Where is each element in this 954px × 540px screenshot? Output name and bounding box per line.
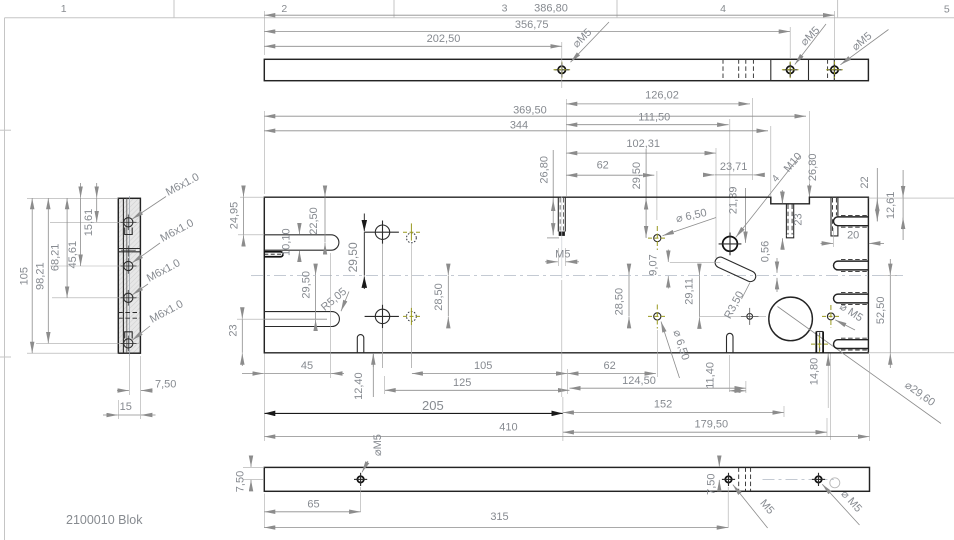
- zone tick 3|4: [616, 0, 618, 18]
- top view solid line e: [770, 59, 772, 80]
- svg-text:M6x1.0: M6x1.0: [164, 171, 201, 199]
- bottom notch slot 1: [357, 335, 364, 353]
- svg-text:369,50: 369,50: [513, 105, 547, 117]
- dim 24,95 rotated: [229, 186, 265, 246]
- svg-text:126,02: 126,02: [645, 89, 679, 101]
- svg-text:11,40: 11,40: [705, 362, 717, 389]
- dim 9,07 rotated: [648, 250, 669, 289]
- main view outline with step: [264, 197, 868, 353]
- hole M5 top view 1: [554, 62, 571, 79]
- dim 20: [821, 228, 885, 247]
- svg-text:⌀ M5: ⌀ M5: [838, 488, 864, 515]
- label diam 6,50 lower leader: [661, 322, 691, 379]
- dim 152: [563, 399, 784, 417]
- slot upper-left capsule: [264, 235, 339, 250]
- vertical slot A at step: [786, 204, 793, 238]
- svg-text:0,56: 0,56: [760, 241, 772, 262]
- yellow hole M5 right (831,316): [822, 305, 840, 328]
- dim 45,61 side rotated: [67, 183, 80, 268]
- svg-text:26,80: 26,80: [539, 156, 551, 184]
- svg-text:105: 105: [474, 360, 492, 372]
- dim 126,02: [566, 89, 752, 196]
- side hole 4 tap bracket: [125, 332, 133, 339]
- dim 22 rotated: [859, 168, 877, 222]
- M5 slot centerline vertical: [561, 196, 563, 278]
- svg-text:1: 1: [61, 3, 67, 15]
- svg-text:62: 62: [597, 160, 609, 172]
- bottom notch slot 2: [727, 333, 734, 352]
- label diam M5 bottom right leader: [822, 484, 864, 525]
- bottom edge extension to right margin: [868, 352, 954, 354]
- zone tick 4|5: [837, 0, 839, 18]
- dim 386,80: [264, 3, 834, 60]
- side hole 1: [121, 215, 137, 231]
- top view dashed line c: [745, 59, 747, 80]
- svg-text:7,50: 7,50: [235, 471, 247, 492]
- dim 29,50 left rotated: [301, 264, 316, 331]
- svg-text:R5,05: R5,05: [319, 286, 349, 314]
- svg-text:68,21: 68,21: [49, 244, 61, 272]
- dim 65: [264, 487, 360, 528]
- svg-text:23,71: 23,71: [720, 161, 748, 173]
- dim 344: [264, 120, 771, 196]
- dim 369,50: [264, 105, 809, 197]
- top view outline: [264, 59, 868, 80]
- svg-text:⌀ 6,50: ⌀ 6,50: [670, 328, 691, 361]
- svg-text:28,50: 28,50: [433, 283, 445, 311]
- top view dashed line g: [827, 59, 829, 80]
- dim 29,50 center rotated dark: [346, 214, 364, 290]
- side hole 4: [121, 336, 137, 352]
- side hole 3: [121, 290, 137, 306]
- dim 315: [264, 487, 728, 528]
- dim 23 left rotated: [228, 309, 265, 367]
- side view inner line 2: [126, 198, 128, 353]
- svg-text:386,80: 386,80: [534, 3, 568, 15]
- svg-text:⌀ 6,50: ⌀ 6,50: [675, 207, 708, 225]
- big circle 29,60: [769, 297, 813, 341]
- dim 12,40 rotated: [353, 353, 373, 400]
- small dotted hole C (411,236): [403, 223, 420, 368]
- top view dashed line b: [738, 59, 740, 80]
- svg-text:7,50: 7,50: [155, 379, 176, 391]
- svg-text:22,50: 22,50: [308, 207, 320, 235]
- label M6x1.0 hole2: [132, 217, 196, 263]
- label diam M5 right: [835, 301, 865, 330]
- vertical slot B top right: [831, 197, 838, 236]
- dim 105 side rotated: [18, 198, 32, 353]
- small dotted hole D (411,316): [403, 308, 420, 368]
- dim 28,50 right rotated: [614, 264, 630, 328]
- svg-text:3: 3: [502, 3, 508, 15]
- dim 21,39 rotated: [728, 187, 746, 243]
- dim 14,80 rotated: [809, 354, 831, 441]
- dim 7,50 bottom left rotated: [235, 456, 265, 492]
- dim 52,50 rotated: [875, 259, 897, 368]
- svg-text:⌀M5: ⌀M5: [570, 26, 594, 50]
- svg-text:45,61: 45,61: [67, 241, 79, 269]
- dim 68,21 side rotated: [49, 198, 67, 297]
- label diam M5 bottom vertical: [362, 434, 384, 472]
- svg-text:21,39: 21,39: [728, 187, 740, 215]
- svg-text:⌀M5: ⌀M5: [372, 434, 384, 456]
- svg-text:M10: M10: [782, 151, 805, 175]
- svg-text:20: 20: [847, 230, 859, 242]
- svg-text:152: 152: [654, 399, 672, 411]
- dim 202,50: [264, 33, 562, 88]
- dim 10,10 rotated: [281, 224, 300, 262]
- bottom faint circle: [830, 478, 840, 488]
- extension line 562 column: [561, 280, 563, 397]
- zone tick 1|2: [173, 0, 175, 18]
- M5 tapped hole top edge (slot 558-565): [558, 197, 565, 236]
- svg-text:344: 344: [510, 120, 528, 132]
- frame top border: [5, 17, 954, 19]
- slot upper-left inner dash: [264, 253, 282, 255]
- svg-text:202,50: 202,50: [427, 33, 461, 45]
- bottom hole 1: [354, 473, 367, 486]
- dim 111,50: [566, 111, 730, 235]
- svg-text:M6x1.0: M6x1.0: [145, 257, 182, 285]
- top view solid line h: [833, 59, 835, 80]
- dim 0,56 rotated: [760, 241, 778, 292]
- hole M5 top view 2: [782, 62, 799, 79]
- svg-text:315: 315: [490, 511, 508, 523]
- dim 22,50 rotated: [308, 186, 325, 254]
- dim 356,75: [264, 19, 790, 59]
- yellow hole F (657,316): [648, 305, 667, 378]
- side view body hatched: [118, 198, 140, 353]
- svg-text:15,61: 15,61: [83, 209, 95, 237]
- label M5 with arrows: [545, 248, 579, 266]
- slot lower-left mid line: [264, 318, 327, 320]
- svg-text:M6x1.0: M6x1.0: [148, 298, 185, 326]
- right edge slot row1 capsule: [834, 215, 869, 227]
- dim 62 lower: [568, 360, 656, 394]
- svg-text:12,61: 12,61: [885, 192, 897, 220]
- M10 hole (730,244): [719, 233, 742, 256]
- bottom slot M5 dark (816-823): [811, 332, 829, 353]
- top edge extension to right margin: [868, 197, 954, 199]
- label M6x1.0 hole1: [132, 171, 201, 219]
- frame left border: [4, 18, 6, 540]
- dim 26,80 right rotated: [807, 154, 819, 197]
- dim R5,05 leader: [319, 286, 349, 314]
- svg-text:52,50: 52,50: [875, 297, 887, 325]
- dim 45: [242, 253, 344, 378]
- side hole 1 tap bracket: [125, 228, 133, 235]
- hole M5 top view 3: [826, 62, 843, 79]
- svg-text:9,07: 9,07: [648, 254, 660, 275]
- svg-text:23: 23: [228, 324, 240, 336]
- label diam M5 top view 3: [840, 30, 888, 65]
- dim 23 slot A rotated: [783, 193, 805, 249]
- leader diam 29,60: [778, 307, 942, 424]
- small crosshair hole (750,316): [741, 308, 759, 325]
- side hole 2: [121, 258, 137, 274]
- dim 28,50 mid rotated: [433, 264, 448, 328]
- capsule end row line: [670, 261, 721, 263]
- svg-text:7,50: 7,50: [706, 473, 718, 494]
- svg-text:M6x1.0: M6x1.0: [158, 217, 195, 245]
- svg-text:14,80: 14,80: [809, 358, 821, 386]
- label M10 with leader: [736, 151, 805, 238]
- bottom view outline: [264, 467, 869, 491]
- svg-text:15: 15: [120, 401, 132, 413]
- dim 26,80 left rotated: [539, 150, 560, 238]
- svg-text:12,40: 12,40: [353, 372, 365, 400]
- dim 15 side: [103, 400, 156, 419]
- svg-text:22: 22: [859, 176, 871, 188]
- label diam M5 top view 2: [795, 24, 826, 65]
- label diam 6,50 upper leader: [663, 207, 717, 236]
- dim 23,71: [704, 161, 765, 175]
- right edge slot row3 capsule: [834, 293, 869, 305]
- dim 98,21 side rotated: [34, 198, 48, 343]
- right edge slot row2 capsule: [834, 260, 869, 272]
- svg-text:98,21: 98,21: [34, 262, 46, 290]
- svg-text:205: 205: [422, 398, 444, 413]
- svg-text:29,50: 29,50: [631, 162, 643, 190]
- dim 29,11 rotated: [684, 265, 700, 329]
- svg-text:29,50: 29,50: [301, 271, 313, 299]
- side slot mark lines: [118, 246, 140, 257]
- side hole row extension lines: [50, 221, 140, 223]
- dim 102,31: [566, 138, 716, 258]
- svg-text:28,50: 28,50: [614, 288, 626, 316]
- top view dashed line d: [752, 59, 754, 80]
- slot upper-left inner thread hole: [264, 252, 283, 257]
- svg-text:⌀M5: ⌀M5: [798, 24, 822, 48]
- top view dashed line a: [722, 59, 724, 80]
- svg-text:29,50: 29,50: [346, 242, 360, 272]
- hole with crosshair A (382,232): [365, 221, 399, 369]
- svg-text:29,11: 29,11: [684, 278, 696, 305]
- dim 7,50 bottom right rotated: [706, 456, 720, 495]
- svg-text:410: 410: [499, 422, 517, 434]
- bottom view dashed line b: [745, 467, 747, 491]
- bottom view dashed line c: [750, 467, 752, 491]
- side dashed lines lower: [118, 313, 140, 319]
- dim 12,61 rotated: [885, 170, 903, 240]
- svg-text:M5: M5: [555, 249, 570, 261]
- svg-text:4: 4: [720, 3, 726, 15]
- svg-text:10,10: 10,10: [281, 228, 293, 256]
- dim 410: [264, 354, 869, 442]
- dim 62 upper: [566, 160, 657, 220]
- bottom hole 2: [722, 473, 735, 486]
- top view solid line f: [808, 59, 810, 80]
- side view inner line 1: [122, 198, 124, 353]
- dim 4 step: [770, 173, 782, 203]
- svg-text:M5: M5: [757, 497, 776, 516]
- bottom view dashed line a: [738, 467, 740, 491]
- label M5 bottom leader: [733, 485, 777, 528]
- main centerline: [251, 275, 903, 277]
- dim 179,50: [563, 397, 827, 441]
- bottom view centerline: [763, 478, 834, 480]
- svg-text:65: 65: [307, 498, 319, 510]
- svg-text:4: 4: [770, 173, 782, 185]
- left margin tick A: [0, 129, 11, 131]
- svg-text:105: 105: [18, 267, 30, 285]
- svg-text:125: 125: [453, 377, 471, 389]
- svg-text:179,50: 179,50: [694, 419, 728, 431]
- dim 11,40 rotated: [705, 355, 746, 392]
- svg-text:102,31: 102,31: [626, 138, 660, 150]
- yellow hole E (657,238): [648, 226, 667, 250]
- slanted capsule slot: [715, 257, 756, 282]
- svg-text:⌀29,60: ⌀29,60: [902, 379, 937, 409]
- slot lower-left capsule: [264, 312, 339, 327]
- svg-text:2100010 Blok: 2100010 Blok: [66, 513, 143, 527]
- label M6x1.0 hole3: [132, 257, 182, 295]
- svg-text:124,50: 124,50: [622, 375, 656, 387]
- svg-text:62: 62: [603, 360, 615, 372]
- svg-text:2: 2: [281, 3, 287, 15]
- svg-text:356,75: 356,75: [515, 19, 549, 31]
- svg-text:45: 45: [301, 360, 313, 372]
- dim R3,50 rotated leader: [722, 283, 750, 321]
- label M6x1.0 hole4: [132, 298, 185, 340]
- svg-text:111,50: 111,50: [638, 111, 670, 123]
- dim 15,61 side rotated: [83, 183, 97, 236]
- dim 29,50 upper rotated: [631, 149, 646, 238]
- svg-text:23: 23: [793, 213, 805, 225]
- svg-text:26,80: 26,80: [807, 154, 819, 182]
- zone tick 2|3: [393, 0, 395, 18]
- svg-text:24,95: 24,95: [229, 202, 241, 230]
- small hole row line: [700, 315, 766, 317]
- label diam M5 top view 1: [570, 22, 609, 62]
- bottom hole 3: [812, 473, 825, 486]
- dim 124,50: [570, 375, 746, 393]
- svg-text:5: 5: [944, 4, 950, 16]
- side view centerline: [128, 196, 130, 356]
- dim 205 black: [264, 398, 563, 413]
- left margin tick B: [0, 356, 11, 358]
- right edge slot row4 capsule: [834, 338, 869, 350]
- hole with crosshair B (382,316): [365, 244, 399, 368]
- svg-text:⌀M5: ⌀M5: [850, 30, 874, 53]
- dim 7,50 side: [117, 356, 176, 419]
- dim 125: [385, 376, 570, 394]
- dim 105: [412, 360, 568, 374]
